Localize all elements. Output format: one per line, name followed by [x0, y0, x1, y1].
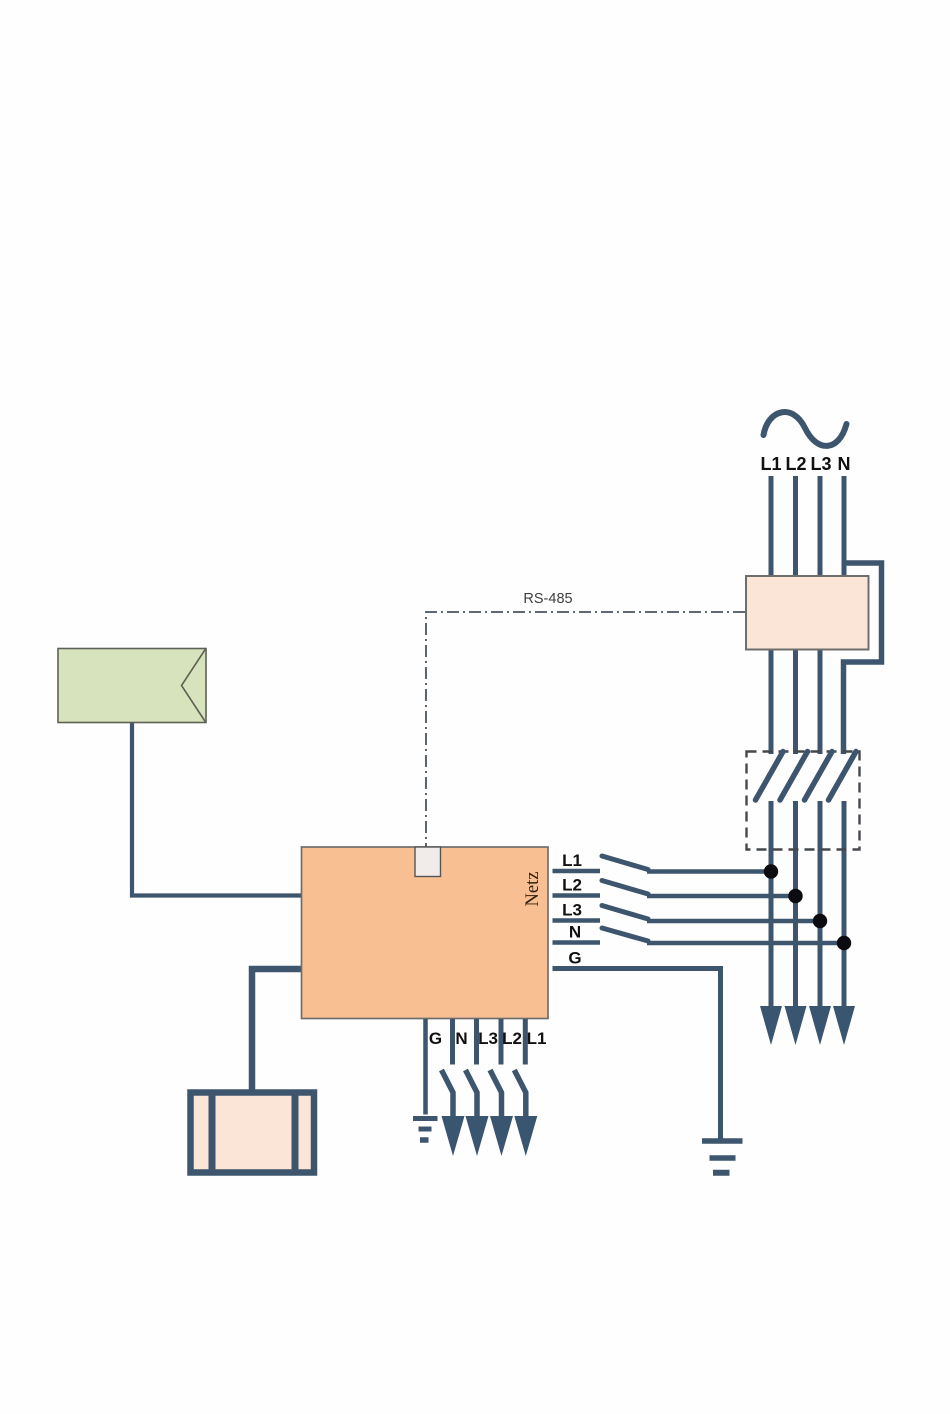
- svg-text:L2: L2: [785, 454, 806, 474]
- junction dot L3: [813, 914, 827, 928]
- svg-text:L1: L1: [760, 454, 781, 474]
- power supply left bar: [209, 1090, 216, 1176]
- switch row L1: wire to L1 line: [647, 869, 771, 874]
- wire N vertical lower: [842, 801, 847, 1008]
- switch row N: blade: [602, 928, 648, 941]
- arrow L2 (bottom): [490, 1116, 513, 1156]
- output stub L1: [523, 1019, 528, 1065]
- Netz box (UMG device): [302, 847, 549, 1019]
- output stub L2: [499, 1019, 504, 1065]
- ground symbol (left): [413, 1116, 438, 1121]
- junction dot L1: [764, 864, 778, 878]
- switch row N: stub: [553, 940, 601, 945]
- wire from display to Netz box: [132, 723, 302, 896]
- display unit (green box): [58, 649, 206, 723]
- junction dot N: [837, 936, 851, 950]
- svg-text:N: N: [569, 923, 581, 942]
- circuit breaker dashed box: [747, 752, 860, 850]
- RS-485 connector notch: [415, 847, 441, 877]
- arrow L1 (bottom): [514, 1116, 537, 1156]
- wire from Netz box to power supply: [252, 969, 303, 1090]
- breaker blade pole 1: [756, 752, 784, 801]
- wire L2 vertical lower: [793, 801, 798, 1008]
- power supply right bar: [292, 1090, 299, 1176]
- arrow N (bottom): [442, 1116, 465, 1156]
- svg-text:L3: L3: [562, 901, 582, 920]
- switch blade L2 (bottom): [490, 1070, 502, 1116]
- arrow L3 (bottom): [466, 1116, 489, 1156]
- svg-text:L3: L3: [478, 1029, 498, 1048]
- junction dot L2: [788, 889, 802, 903]
- svg-text:G: G: [568, 949, 581, 968]
- switch blade L3 (bottom): [466, 1070, 478, 1116]
- wire L2 vertical upper: [793, 476, 798, 754]
- svg-text:L2: L2: [502, 1029, 522, 1048]
- svg-text:RS-485: RS-485: [523, 591, 572, 607]
- switch blade N (bottom): [442, 1070, 454, 1116]
- output stub N: [450, 1019, 455, 1065]
- switch row L2: blade: [602, 881, 648, 895]
- breaker blade pole 3: [805, 752, 833, 801]
- svg-text:L3: L3: [810, 454, 831, 474]
- arrow L2 down: [785, 1006, 807, 1045]
- RS-485 dash-dot link: [426, 612, 745, 847]
- output stub L3: [474, 1019, 479, 1065]
- switch row L1: stub: [553, 869, 601, 874]
- switch row L2: wire to L2 line: [647, 894, 796, 899]
- wire G to earth (right): [553, 969, 721, 1141]
- breaker blade pole 4: [829, 752, 857, 801]
- meter box (current transformer block): [746, 576, 869, 650]
- power supply box: [191, 1093, 315, 1173]
- svg-text:N: N: [455, 1029, 467, 1048]
- earth ground symbol (right): [702, 1138, 743, 1144]
- switch row L1: blade: [602, 856, 648, 870]
- switch row L3: blade: [602, 906, 648, 920]
- display unit chevron: [182, 649, 206, 722]
- svg-text:N: N: [838, 454, 851, 474]
- wire L3 vertical upper: [818, 476, 823, 754]
- svg-text:L1: L1: [527, 1029, 547, 1048]
- svg-text:L2: L2: [562, 876, 582, 895]
- output stub G: [423, 1019, 428, 1115]
- breaker blade pole 2: [780, 752, 808, 801]
- wire N vertical upper: [842, 476, 847, 576]
- arrow N down: [833, 1006, 855, 1045]
- svg-text:L1: L1: [562, 851, 582, 870]
- arrow L3 down: [809, 1006, 831, 1045]
- switch row N: wire to N line: [647, 941, 844, 946]
- AC source sine wave: [764, 412, 847, 446]
- wire L3 vertical lower: [818, 801, 823, 1008]
- wire N bypass around meter: [844, 563, 882, 754]
- switch row L3: stub: [553, 918, 601, 923]
- wire L1 vertical upper: [769, 476, 774, 754]
- arrow L1 down: [760, 1006, 782, 1045]
- svg-text:G: G: [429, 1029, 442, 1048]
- switch row L3: wire to L3 line: [647, 919, 820, 924]
- switch row L2: stub: [553, 893, 601, 898]
- svg-text:Netz: Netz: [523, 872, 543, 907]
- wire L1 vertical lower: [769, 801, 774, 1008]
- switch blade L1 (bottom): [514, 1070, 526, 1116]
